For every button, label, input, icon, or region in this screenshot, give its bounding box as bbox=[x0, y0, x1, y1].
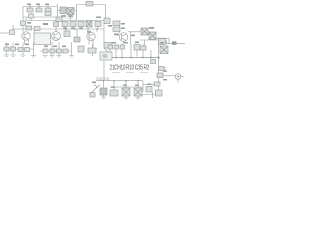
wire Q1 legs bbox=[25, 40, 29, 45]
resistor R11 bbox=[54, 22, 59, 27]
label smudge b3 bbox=[25, 44, 29, 46]
wire col x122 bbox=[121, 44, 123, 57]
resistor R35 bbox=[140, 46, 146, 50]
label smudge m4 bbox=[71, 28, 75, 29]
svg-text:50MHz: 50MHz bbox=[96, 76, 109, 81]
wire under-label seg2 bbox=[126, 72, 134, 74]
resistor R42 below bus bbox=[151, 60, 156, 64]
wire lv col c bbox=[22, 43, 24, 56]
diode D3 bbox=[141, 28, 148, 35]
wire col x131 bbox=[130, 44, 132, 57]
resistor R9 bbox=[26, 26, 32, 30]
resistor R30 bbox=[78, 46, 84, 52]
wire resistor row link left bbox=[3, 48, 34, 50]
transistor Q1 bbox=[22, 32, 30, 40]
junction dots bus y57 bbox=[109, 57, 111, 59]
resistor R29 bbox=[63, 49, 68, 53]
label smudge b13 bbox=[135, 85, 139, 86]
label smudge b2 bbox=[15, 44, 19, 46]
wire mid col e bbox=[51, 42, 53, 56]
ground tick bc3 bbox=[136, 96, 141, 99]
resistor R19 bbox=[113, 27, 120, 32]
wire col x143 bbox=[142, 44, 144, 57]
wire lv col d bbox=[33, 42, 35, 56]
ground bar b bbox=[11, 55, 16, 57]
wire bus y29 bbox=[13, 28, 104, 30]
wire stub Q4 emitter bbox=[123, 41, 125, 44]
wire stub x77 bbox=[76, 29, 78, 37]
resistor R14 bbox=[70, 22, 76, 27]
diode D5 bbox=[160, 46, 168, 54]
wire left rail bbox=[22, 7, 24, 33]
capacitor C2 bbox=[159, 39, 166, 45]
wire out line bbox=[163, 75, 175, 77]
crystal X2 bbox=[134, 88, 142, 96]
resistor R32 bbox=[114, 45, 119, 49]
label smudge t5 bbox=[68, 15, 73, 17]
wire tick up2 bbox=[107, 78, 109, 81]
label smudge m13 bbox=[121, 28, 125, 30]
wire input y33 bbox=[0, 32, 13, 34]
wire under-label seg1 bbox=[112, 72, 120, 74]
wire col x151 bbox=[150, 50, 152, 57]
wire stub x88 bbox=[87, 29, 89, 34]
wire module top bbox=[77, 4, 106, 6]
label smudge m10 bbox=[149, 27, 154, 29]
resistor R13 bbox=[62, 22, 68, 27]
wire pot tick 1 bbox=[29, 4, 31, 9]
label smudge m1 bbox=[27, 22, 31, 24]
label smudge t4 bbox=[61, 15, 66, 17]
capacitor C4 dark bbox=[100, 88, 107, 95]
wire col x116 bbox=[115, 44, 117, 57]
resistor R18 bbox=[113, 21, 120, 26]
ground bar a bbox=[4, 55, 9, 57]
label smudge b14 bbox=[147, 84, 151, 85]
wire faint top ticks bbox=[62, 1, 88, 19]
wire mid col f bbox=[58, 42, 60, 56]
wire col x137 bbox=[136, 50, 138, 57]
label smudge b15 bbox=[163, 71, 167, 72]
resistor R31 bbox=[108, 45, 113, 49]
label smudge b4 bbox=[44, 46, 48, 48]
resistor R28 bbox=[57, 49, 62, 53]
label smudge m2 bbox=[43, 23, 48, 25]
wire x169 drop bbox=[168, 38, 170, 43]
resistor R12 bbox=[56, 17, 62, 22]
wire resistor row link mid bbox=[40, 50, 72, 52]
resistor R21 bbox=[88, 48, 96, 53]
resistor R33 bbox=[120, 45, 125, 49]
capacitor C8 on out line bbox=[172, 41, 177, 45]
wire x144 drop bbox=[144, 40, 146, 47]
label smudge b7 bbox=[112, 42, 116, 43]
diode D1 bbox=[67, 8, 74, 15]
label smudge t6 bbox=[96, 17, 101, 19]
wire under-label seg3 bbox=[140, 72, 148, 74]
dark bus y57 bbox=[103, 57, 159, 59]
wire bus right y32 bbox=[128, 31, 150, 33]
label smudge b11 bbox=[111, 87, 115, 88]
ground bar f bbox=[57, 56, 62, 58]
resistor R15 bbox=[78, 22, 84, 27]
ground tick bc2 bbox=[124, 96, 129, 99]
resistor R2 bbox=[36, 8, 42, 12]
resistor R24 bbox=[18, 48, 23, 52]
wire stub d bbox=[97, 27, 99, 30]
coil L1 upper box bbox=[104, 43, 112, 49]
connector J1 bbox=[175, 74, 181, 80]
wire x70 drop bbox=[70, 15, 72, 21]
wire y10 segment bbox=[58, 10, 77, 12]
label smudge m12 bbox=[121, 23, 125, 25]
wire y87 extend bbox=[110, 86, 118, 88]
label smudge b16 bbox=[163, 79, 167, 80]
wire bottom bus y80 bbox=[96, 80, 143, 82]
diode D2 bbox=[86, 21, 92, 27]
diode D4 bbox=[149, 32, 156, 40]
wire top-left frame top bbox=[23, 6, 58, 8]
wire x31 drop bbox=[30, 13, 32, 21]
resistor R16 bbox=[95, 22, 101, 27]
transistor Q2 bbox=[52, 32, 61, 41]
wire node B vertical bbox=[57, 4, 59, 23]
wire y40 segment bbox=[140, 39, 159, 41]
ground bar g bbox=[69, 56, 74, 58]
wire long right vertical bbox=[158, 40, 160, 95]
wire col x103b bbox=[103, 81, 105, 97]
wire module right bbox=[105, 5, 107, 21]
resistor R39 bbox=[110, 90, 118, 96]
label smudge b5 bbox=[53, 46, 57, 48]
resistor R25 bbox=[25, 48, 30, 52]
resistor R10 bbox=[34, 27, 40, 31]
resistor R4 bbox=[45, 12, 51, 16]
wire input riser bbox=[12, 25, 14, 33]
label smudge m9 bbox=[131, 35, 135, 37]
resistor R27 bbox=[50, 49, 55, 53]
transistor Q4 bbox=[119, 33, 128, 42]
ground bar e0 bbox=[43, 56, 48, 58]
label smudge b6 bbox=[62, 46, 66, 48]
resistor R40 bbox=[146, 87, 152, 93]
junction dots bottom bus bbox=[103, 80, 105, 82]
wire col x138b bbox=[137, 81, 139, 88]
resistor R6 bbox=[29, 14, 34, 18]
label smudge t1 bbox=[27, 4, 31, 6]
wire stub b bbox=[72, 27, 74, 30]
wire out down tick bbox=[177, 79, 179, 83]
wire col x152b bbox=[152, 92, 154, 98]
wire osc drop bbox=[103, 60, 105, 81]
ground tick bc1 bbox=[101, 97, 106, 99]
wire stub x66 bbox=[65, 29, 67, 31]
wire pot tick 2 bbox=[38, 4, 40, 9]
label smudge t2 bbox=[36, 4, 40, 6]
wire stub c bbox=[80, 27, 82, 30]
wire cap C7 vertical bbox=[92, 44, 94, 56]
label smudge m8 bbox=[114, 34, 119, 36]
wire cap C7 plate bbox=[88, 48, 97, 50]
wire tick up1 bbox=[99, 78, 101, 81]
ground bar e bbox=[50, 56, 55, 58]
wire x166 tick bbox=[166, 41, 168, 44]
resistor R1 bbox=[27, 8, 33, 12]
resistor R23 bbox=[11, 47, 16, 51]
wire out stub bbox=[181, 76, 184, 78]
wire col x114b bbox=[113, 81, 115, 90]
junction dots bus y29 bbox=[65, 28, 67, 30]
wire x34 drop bbox=[34, 31, 36, 34]
resistor R5 bbox=[60, 7, 66, 14]
resistor R3 bbox=[45, 8, 51, 12]
transistor Q3 bbox=[87, 32, 95, 40]
resistor R37 bbox=[156, 90, 163, 96]
label smudge b8 bbox=[124, 42, 128, 43]
wire lv col b bbox=[12, 43, 14, 56]
wire x130 drop bbox=[130, 32, 132, 44]
wire Q2 base feed bbox=[55, 21, 57, 32]
capacitor C3 bbox=[157, 73, 163, 78]
wire lv col a bbox=[6, 43, 8, 56]
wire y94 right bbox=[140, 94, 159, 96]
ground bar d bbox=[31, 56, 36, 58]
wire module left bbox=[76, 5, 78, 21]
resistor R7 bbox=[21, 21, 26, 26]
label smudge t3 bbox=[45, 4, 49, 6]
wire pot tick 3 bbox=[47, 4, 49, 9]
wire y84 right bbox=[143, 84, 159, 86]
label smudge b9 bbox=[135, 42, 139, 44]
label smudge m5 bbox=[79, 28, 83, 29]
capacitor C1 bbox=[86, 2, 93, 7]
resistor R34 bbox=[134, 45, 140, 51]
trimmer VC1 bbox=[92, 85, 100, 93]
resistor R26 bbox=[43, 49, 48, 53]
label smudge b10 bbox=[92, 82, 96, 84]
wire mid col g bbox=[71, 42, 73, 56]
resistor R22 bbox=[4, 47, 9, 51]
wire stub x97 bbox=[96, 29, 98, 32]
wire y38 link bbox=[156, 37, 169, 39]
resistor R17 bbox=[104, 18, 110, 24]
ground bar c bbox=[21, 55, 26, 57]
wire stub a bbox=[64, 27, 66, 30]
svg-text:21CH10 R10 C35 R2: 21CH10 R10 C35 R2 bbox=[110, 65, 150, 72]
label smudge b12 bbox=[123, 85, 127, 86]
label smudge m7 bbox=[108, 25, 112, 27]
wire top-left frame bottom bbox=[23, 16, 58, 18]
coil L1 lower box bbox=[100, 52, 112, 60]
label smudge m11 bbox=[160, 42, 164, 44]
resistor R8 bbox=[10, 30, 15, 35]
label smudge m3 bbox=[63, 28, 67, 29]
wire Q3 legs bbox=[89, 41, 93, 49]
label smudge b1 bbox=[5, 44, 9, 46]
resistor R20 bbox=[64, 31, 70, 37]
wire col x126b bbox=[125, 81, 127, 88]
crystal X1 bbox=[122, 88, 130, 96]
wire x119 drop bbox=[119, 21, 121, 34]
wire main bus y20 bbox=[26, 20, 106, 22]
resistor R36 bbox=[159, 67, 165, 71]
resistor R38 bbox=[154, 82, 160, 86]
coil L1 link bbox=[104, 48, 108, 52]
wire col x110 bbox=[109, 44, 111, 57]
wire stub x26 bbox=[25, 17, 27, 21]
wire x104 vertical bbox=[103, 21, 105, 45]
resistor R41 dark blob bbox=[74, 37, 80, 42]
wire col x143b bbox=[142, 81, 144, 92]
IC block U1 bbox=[34, 33, 51, 45]
wire y43 out to edge bbox=[166, 43, 185, 45]
wire y87 link bbox=[118, 86, 143, 88]
label smudge m6 bbox=[87, 31, 91, 33]
